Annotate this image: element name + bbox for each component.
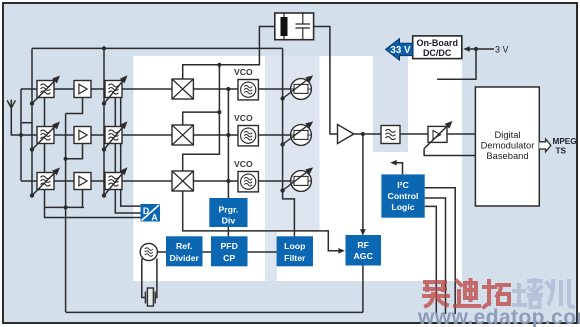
wire I2C right pin3 xyxy=(425,206,437,314)
tracking filter F2 row3 xyxy=(102,167,128,197)
wire crystal left lead xyxy=(142,259,146,298)
svg-text:VCO: VCO xyxy=(234,67,253,77)
RF AGC box xyxy=(346,235,382,266)
svg-text:3 V: 3 V xyxy=(495,44,509,54)
svg-text:TS: TS xyxy=(556,147,567,156)
wire prgr div to PFD xyxy=(227,227,229,238)
I2C Control Logic box xyxy=(381,174,424,217)
wire I2C right pin1 xyxy=(425,188,456,314)
crystal oscillator circle xyxy=(140,243,157,260)
svg-text:Baseband: Baseband xyxy=(486,150,528,161)
wire row1 amp-filter2 xyxy=(91,88,105,90)
arrowhead into RF AGC top xyxy=(360,229,366,235)
wire 3V branch xyxy=(437,49,476,79)
Loop Filter box xyxy=(277,236,313,266)
wire I2C up arrow xyxy=(394,163,403,175)
Prgr Div box xyxy=(209,198,247,227)
mixer row3 xyxy=(172,171,193,191)
wire row3 feed xyxy=(21,180,37,182)
svg-text:Digital: Digital xyxy=(494,129,520,140)
LNA amp row3 xyxy=(74,173,91,190)
wire 3V supply xyxy=(466,48,494,50)
LNA amp row1 xyxy=(74,81,91,98)
wire row1 mixer-VCO xyxy=(194,88,239,90)
wire LO bus xyxy=(183,65,220,171)
svg-text:AGC: AGC xyxy=(354,251,374,261)
tracking filter F2 row1 xyxy=(102,75,128,105)
LNA amp row2 xyxy=(74,127,91,144)
wire varactor tune bus xyxy=(283,48,295,238)
MPEG TS output arrow xyxy=(539,139,551,152)
external resonator box xyxy=(275,13,314,40)
antenna xyxy=(7,100,15,109)
wire ref divider to PFD xyxy=(203,251,212,253)
wire IF amp output xyxy=(354,133,382,135)
wire filter1 column link 1-2 xyxy=(44,98,46,127)
wire row1 VCO-varactor xyxy=(259,88,291,90)
varactor row2 xyxy=(280,121,313,146)
wire amp2 gain elbow xyxy=(66,144,83,159)
wire row3 filter2-mixer xyxy=(122,180,172,182)
white background plate xyxy=(134,56,463,281)
IF filter box xyxy=(381,126,400,144)
wire row2 filter1-amp xyxy=(54,134,74,136)
wire filter1 column to DA xyxy=(45,190,141,218)
wire mixer3 bottom to RF AGC xyxy=(183,191,342,251)
wire VCO feedback bus to divider xyxy=(227,89,229,199)
On-Board DC/DC box xyxy=(413,36,462,59)
wire amp3 gain stub xyxy=(82,190,84,208)
svg-text:I²C: I²C xyxy=(397,180,409,190)
tint column IF filter xyxy=(373,56,408,152)
crystal xyxy=(145,288,155,306)
wire tuning bus filter1 column xyxy=(31,48,33,195)
PFD CP box xyxy=(211,236,248,266)
wire filter2 column to DA a xyxy=(115,98,140,214)
wire mixer1 top to resonator xyxy=(183,27,275,80)
tint sliver PLL row xyxy=(265,231,277,281)
wire row3 VCO-varactor xyxy=(259,180,291,182)
tracking filter F2 row2 xyxy=(102,121,128,151)
svg-text:VCO: VCO xyxy=(234,113,253,123)
wire tuning bus filter2 column xyxy=(103,48,105,195)
svg-text:A: A xyxy=(151,213,158,223)
wire row3 mixer-VCO xyxy=(194,180,239,182)
wire row2 feed xyxy=(21,134,37,136)
svg-text:Divider: Divider xyxy=(169,253,199,263)
varactor row1 xyxy=(280,75,313,100)
svg-text:On-Board: On-Board xyxy=(416,38,458,48)
wire branch to AGC bus xyxy=(45,206,85,208)
wire bus link xyxy=(21,122,32,124)
svg-text:Control: Control xyxy=(388,191,419,201)
arrowhead I2C up xyxy=(390,160,397,166)
svg-text:Loop: Loop xyxy=(284,241,305,251)
VCO row1 xyxy=(238,80,258,100)
arrowhead 3V xyxy=(463,46,470,52)
33V arrow xyxy=(386,39,413,61)
svg-text:DC/DC: DC/DC xyxy=(423,48,452,58)
svg-text:D: D xyxy=(143,206,149,216)
tracking filter F1 row3 xyxy=(30,168,60,198)
mixer row2 xyxy=(172,125,193,145)
svg-text:Filter: Filter xyxy=(284,253,306,263)
wire row1 feed xyxy=(21,88,37,90)
wire tuning line top xyxy=(32,47,283,49)
wire AGC feedback from demodulator xyxy=(424,149,475,156)
wire var amp to demodulator xyxy=(447,133,475,135)
VCO row2 xyxy=(238,126,258,146)
wire filter2 column to DA b xyxy=(121,98,141,207)
svg-text:Logic: Logic xyxy=(391,202,414,212)
wire RF AGC bottom xyxy=(362,266,364,313)
svg-text:Ref.: Ref. xyxy=(176,241,192,251)
wire mixer2 top elbow xyxy=(183,112,220,125)
svg-text:CP: CP xyxy=(223,253,235,263)
svg-text:Div: Div xyxy=(222,216,236,226)
wire resonator to IF amp xyxy=(314,27,338,135)
D/A converter box xyxy=(141,204,161,223)
wire row1 filter2-mixer xyxy=(122,88,172,90)
IF amp triangle xyxy=(338,125,354,144)
wire amp1 gain elbow xyxy=(66,98,83,114)
arrowhead into RF AGC left xyxy=(338,248,345,254)
svg-text:Demodulator: Demodulator xyxy=(481,139,535,150)
wire antenna stem xyxy=(11,108,21,135)
wire row3 filter1-amp xyxy=(54,180,74,182)
wire row2 filter2-mixer xyxy=(122,134,172,136)
svg-text:www.edatop.com: www.edatop.com xyxy=(417,306,580,327)
wire IF filter to var amp xyxy=(400,133,428,135)
wire row1 filter1-amp xyxy=(54,88,74,90)
IF variable amplifier xyxy=(424,121,452,149)
svg-text:MPEG: MPEG xyxy=(553,137,577,146)
tint column varactors xyxy=(265,56,320,231)
wire row2 mixer-VCO xyxy=(194,134,239,136)
mixer row1 xyxy=(172,79,193,99)
wire row2 VCO-varactor xyxy=(259,134,291,136)
wire row3 amp-filter2 xyxy=(91,180,105,182)
tracking filter F1 row2 xyxy=(30,122,60,152)
wire antenna input bus xyxy=(20,89,22,181)
Ref Divider box xyxy=(166,236,203,266)
svg-text:PFD: PFD xyxy=(221,241,238,251)
svg-text:33 V: 33 V xyxy=(390,45,411,56)
wire crystal right lead xyxy=(155,259,157,298)
svg-text:VCO: VCO xyxy=(234,159,253,169)
VCO row3 xyxy=(238,172,258,192)
wire I2C right pin2 xyxy=(425,198,446,314)
digital demodulator box xyxy=(475,87,539,206)
varactor row3 xyxy=(280,167,313,192)
wire AGC bus vertical xyxy=(65,114,67,313)
wire AGC bottom rail xyxy=(66,311,363,313)
wire filter1 column link 2-3 xyxy=(44,144,46,173)
tracking filter F1 row1 xyxy=(30,76,60,106)
wire row2 amp-filter2 xyxy=(91,134,105,136)
wire to RF AGC top xyxy=(362,134,364,235)
wire osc to ref divider xyxy=(157,251,166,253)
svg-text:RF: RF xyxy=(357,240,369,250)
watermark CJK glyphs xyxy=(424,280,573,307)
svg-text:Prgr.: Prgr. xyxy=(219,205,239,215)
wire PFD to loop filter xyxy=(248,251,277,253)
